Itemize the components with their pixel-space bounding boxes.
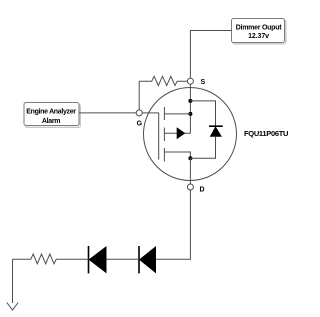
- ground arrow: [7, 303, 18, 311]
- wire diode to resistor: [57, 258, 88, 260]
- svg-text:12.37v: 12.37v: [248, 33, 269, 40]
- wire between diodes: [107, 258, 140, 260]
- channel dash top: [163, 107, 165, 120]
- svg-text:G: G: [137, 121, 143, 128]
- box Engine Analyzer Alarm: [24, 103, 80, 128]
- wire from Engine Analyzer box to node G: [79, 112, 136, 114]
- body diode D1 cathode bar: [209, 125, 223, 127]
- body diode branch top wire: [190, 101, 215, 126]
- wire from Dimmer box to node S: [190, 31, 231, 79]
- svg-text:D: D: [199, 186, 204, 193]
- junction dot (bottom): [188, 156, 192, 160]
- svg-text:Dimmer Ouput: Dimmer Ouput: [236, 24, 283, 31]
- junction dot (mosfet top terminal): [188, 112, 192, 116]
- svg-text:FQU11P06TU: FQU11P06TU: [244, 129, 288, 138]
- wire from node G up to resistor: [138, 81, 140, 110]
- resistor R1 (top): [139, 76, 187, 85]
- channel dash bottom: [163, 148, 165, 162]
- diode D2 triangle: [89, 246, 107, 273]
- svg-text:Engine Analyzer: Engine Analyzer: [26, 109, 76, 116]
- svg-text:Alarm: Alarm: [42, 118, 60, 125]
- gate line: [158, 113, 160, 160]
- diode D2 (left) cathode bar: [88, 246, 90, 273]
- resistor R2 (bottom): [13, 254, 58, 264]
- box Dimmer Ouput 12.37v: [232, 19, 286, 44]
- svg-text:S: S: [200, 79, 205, 86]
- wire stem to node D: [189, 158, 191, 184]
- channel dash middle: [163, 128, 165, 142]
- mosfet arrow head: [177, 127, 186, 139]
- MOSFET U1 body circle: [144, 88, 237, 181]
- diode D3 triangle: [139, 246, 156, 273]
- node S terminal circle: [187, 78, 193, 84]
- junction dot (diode branch top): [188, 99, 192, 103]
- wire to ground: [12, 259, 14, 303]
- node D terminal circle: [187, 184, 193, 190]
- wire S stem (node S into MOSFET): [189, 84, 191, 133]
- mosfet source arrow wire: [164, 132, 190, 134]
- node G terminal circle: [136, 110, 142, 116]
- wire from node D down and left: [156, 190, 190, 259]
- body diode D1 triangle: [210, 126, 222, 137]
- body diode branch bottom wire: [190, 137, 215, 158]
- mosfet top terminal wire: [164, 113, 190, 115]
- diode D3 (right) cathode bar: [138, 246, 140, 273]
- wire node G to gate: [142, 112, 159, 114]
- mosfet bottom terminal wire: [164, 152, 190, 158]
